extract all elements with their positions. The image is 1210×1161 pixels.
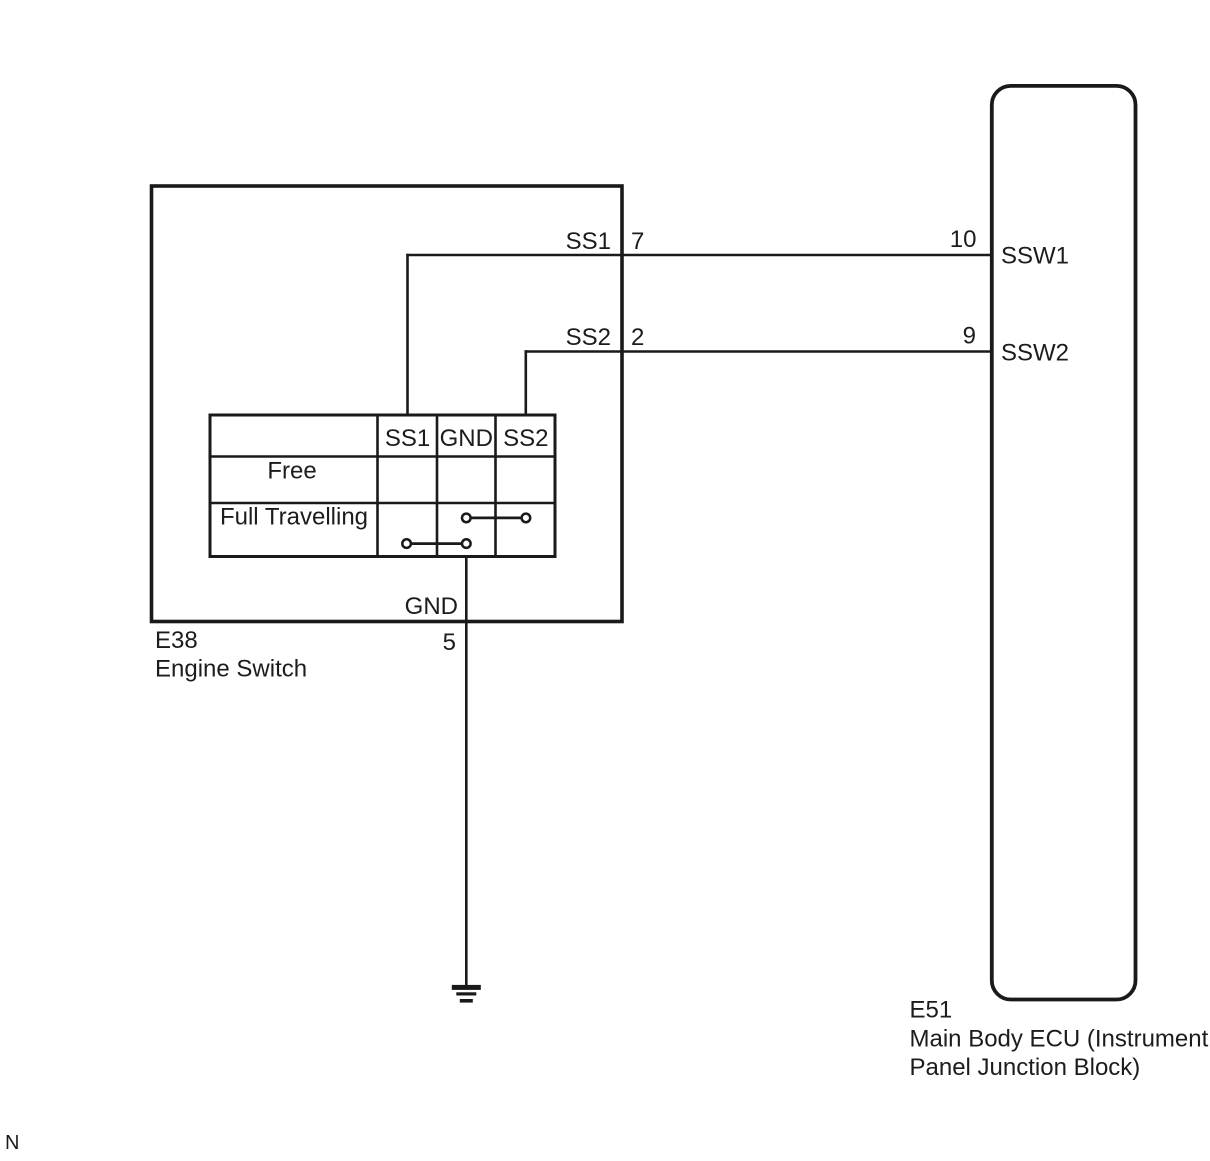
svg-text:Engine Switch: Engine Switch: [155, 656, 307, 683]
svg-text:N: N: [5, 1132, 19, 1154]
svg-text:SSW1: SSW1: [1001, 243, 1069, 270]
svg-text:9: 9: [963, 323, 976, 350]
svg-text:Main Body ECU (Instrument: Main Body ECU (Instrument: [910, 1026, 1209, 1053]
wire GND vertical (pin 5 to ground): [465, 556, 468, 988]
switch contact GND to SS2: [462, 514, 530, 523]
table row divider under header: [210, 455, 555, 458]
svg-text:GND: GND: [440, 425, 493, 452]
svg-text:Free: Free: [267, 458, 316, 485]
table column divider left of SS1: [376, 415, 379, 557]
wire SS1 vertical drop to switch table: [406, 254, 409, 416]
svg-text:10: 10: [950, 226, 977, 253]
table column divider between GND and SS2: [494, 415, 497, 557]
svg-text:SS2: SS2: [566, 324, 611, 351]
svg-text:SS1: SS1: [566, 228, 611, 255]
connector E51 Main Body ECU outline: [992, 86, 1136, 1000]
svg-text:SS2: SS2: [503, 425, 548, 452]
ground symbol: [452, 985, 481, 1003]
svg-text:Panel Junction Block): Panel Junction Block): [910, 1054, 1141, 1081]
svg-text:7: 7: [631, 228, 644, 255]
svg-text:Full Travelling: Full Travelling: [220, 504, 368, 531]
svg-text:5: 5: [443, 629, 456, 656]
svg-text:2: 2: [631, 324, 644, 351]
svg-text:E38: E38: [155, 627, 198, 654]
table row divider under Free: [210, 502, 555, 505]
wire SS2 horizontal (pin 2 to pin 9): [525, 350, 992, 353]
wire SS2 vertical drop to switch table: [524, 350, 527, 416]
svg-text:GND: GND: [405, 593, 458, 620]
switch contact SS1 to GND: [402, 539, 470, 548]
wire SS1 horizontal (pin 7 to pin 10): [406, 254, 992, 257]
svg-text:SS1: SS1: [385, 425, 430, 452]
svg-text:E51: E51: [910, 997, 953, 1024]
switch state table outline: [210, 415, 555, 557]
svg-text:SSW2: SSW2: [1001, 340, 1069, 367]
connector E38 Engine Switch outline: [152, 186, 623, 622]
table column divider between SS1 and GND: [436, 415, 439, 557]
